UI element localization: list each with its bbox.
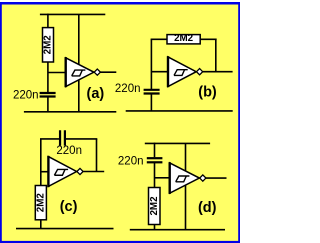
svg-text:(c): (c) bbox=[60, 199, 78, 215]
svg-text:(b): (b) bbox=[198, 85, 217, 101]
svg-text:220n: 220n bbox=[13, 90, 39, 102]
svg-text:220n: 220n bbox=[56, 145, 82, 157]
svg-text:(a): (a) bbox=[87, 86, 105, 102]
svg-text:2M2: 2M2 bbox=[35, 193, 46, 213]
svg-text:2M2: 2M2 bbox=[149, 196, 160, 216]
svg-text:220n: 220n bbox=[118, 156, 144, 168]
svg-text:220n: 220n bbox=[115, 83, 141, 95]
svg-text:2M2: 2M2 bbox=[43, 35, 54, 55]
svg-text:(d): (d) bbox=[198, 200, 217, 216]
svg-text:2M2: 2M2 bbox=[174, 33, 194, 44]
